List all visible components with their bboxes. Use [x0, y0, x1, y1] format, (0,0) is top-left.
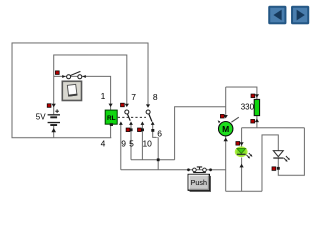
relay pole 1 (pins 7-9-5): [119, 104, 133, 125]
svg-text:M: M: [222, 124, 229, 134]
relay contact dashed link: [118, 116, 146, 118]
wire resistor bottom to node: [256, 116, 258, 128]
wire motor top tee: [225, 87, 227, 115]
wire top link motor to resistor: [226, 87, 257, 99]
svg-text:330: 330: [241, 103, 255, 112]
node junction pins bus: [157, 158, 160, 161]
wire bottom rail: [226, 190, 262, 192]
resistor R1 330: [254, 94, 259, 122]
wire relay pin 5 down: [130, 122, 132, 159]
relay pole 2 (pins 8-10-6): [140, 104, 154, 125]
wire green LED branch: [241, 128, 243, 191]
red pin marker pin10: [137, 128, 141, 132]
svg-text:8: 8: [153, 92, 158, 102]
red pin marker resistor bottom: [251, 119, 255, 123]
LED D1 green lit: [235, 142, 253, 167]
wire relay pin 10 down: [141, 122, 143, 159]
wire battery vertical: [53, 105, 55, 138]
label pin 6: [156, 128, 163, 138]
svg-text:4: 4: [101, 138, 106, 148]
wire second loop (battery+ to pin 7): [54, 55, 127, 105]
push button GUI: [188, 174, 211, 192]
wire white LED bottom detour: [278, 128, 304, 176]
motor M1: [218, 115, 239, 141]
wire white LED loop left leg: [262, 135, 278, 191]
svg-text:Push: Push: [191, 178, 207, 187]
svg-text:10: 10: [142, 138, 152, 148]
rocker switch picture box: [62, 81, 81, 100]
red pin marker LED D1 top: [236, 142, 240, 146]
nav button forward: [292, 7, 308, 24]
nav button back: [269, 7, 285, 24]
switch SW1 (toggle, open): [62, 71, 86, 78]
red pin marker LED D2 bottom: [272, 167, 276, 171]
relay coil RL: [105, 104, 117, 126]
wire relay pin 9 down to push-button wire: [120, 122, 122, 169]
red pin marker battery: [47, 104, 51, 108]
svg-text:7: 7: [131, 92, 136, 102]
wire coil pin 4 to bottom rail: [110, 124, 112, 137]
svg-text:6: 6: [157, 128, 162, 138]
wire motor branch riser: [175, 107, 226, 160]
red pin marker resistor top: [251, 94, 255, 98]
red pin marker pin5: [126, 128, 130, 132]
red pin marker switch wire: [55, 71, 59, 75]
pin stubs dots 5,10,6: [130, 128, 133, 131]
wire motor bottom to bottom rail: [225, 136, 227, 191]
svg-text:5: 5: [129, 138, 134, 148]
wire relay pin 6 step down: [153, 122, 159, 169]
svg-text:5V: 5V: [36, 112, 46, 121]
battery B1 5V: [48, 104, 60, 133]
wire LED node horizontal: [242, 127, 305, 129]
red pin marker motor top: [220, 114, 224, 118]
push switch SW2 (push-to-make): [187, 167, 212, 173]
wire push-button row: [121, 169, 226, 171]
svg-text:9: 9: [121, 138, 126, 148]
LED D2 white (off): [273, 151, 290, 170]
wire outer loop (battery- to pin 8): [12, 43, 148, 138]
wire node bus pins 5-10-6 to motor branch: [131, 159, 175, 161]
svg-text:1: 1: [101, 91, 106, 101]
red pin marker pin7: [121, 103, 125, 107]
wire switch branch to relay coil pin 1: [54, 76, 111, 109]
svg-text:RL: RL: [107, 115, 116, 122]
